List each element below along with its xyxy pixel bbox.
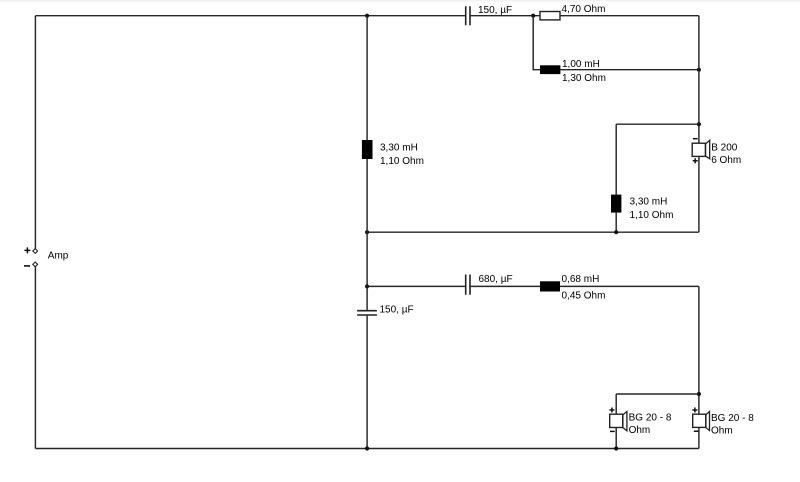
inductor 1.00mH body bbox=[540, 65, 560, 74]
svg-text:1,10 Ohm: 1,10 Ohm bbox=[630, 210, 674, 221]
svg-text:4,70 Ohm: 4,70 Ohm bbox=[562, 4, 606, 15]
wire: left BG20 to bottom rail bbox=[615, 428, 617, 449]
inductor 3.30mH (x616) body bbox=[611, 195, 621, 213]
speaker BG20-right box bbox=[693, 414, 706, 427]
wire: mid vertical rail top (x367) bbox=[366, 16, 368, 140]
wire: speaker branch y394 horizontal bbox=[616, 393, 699, 395]
node junction mid rail x616 bbox=[614, 230, 618, 234]
wire: x616 inductor to mid rail bbox=[615, 213, 617, 233]
wire: RL-left vertical stub bbox=[533, 16, 540, 70]
wire: left rail top (amp+) bbox=[34, 16, 36, 249]
svg-text:150, µF: 150, µF bbox=[380, 305, 414, 316]
node junction right rail y394 bbox=[697, 392, 701, 396]
svg-text:1,30 Ohm: 1,30 Ohm bbox=[562, 73, 606, 84]
capacitor 150µF top plates bbox=[466, 6, 470, 25]
wire: branch y124 horizontal bbox=[616, 123, 699, 125]
node junction right rail y124 bbox=[697, 122, 701, 126]
wire: x616 down to inductor bbox=[615, 124, 617, 194]
speaker BG20-right plus mark bbox=[692, 408, 697, 413]
speaker B200 minus mark bbox=[693, 138, 698, 140]
amp plus mark bbox=[24, 247, 30, 253]
wire: top rail left (amp+ to cap) bbox=[35, 15, 465, 17]
top window edge shading bbox=[0, 0, 800, 1]
svg-text:B 200: B 200 bbox=[711, 143, 738, 154]
wire: right BG20 to bottom rail end bbox=[698, 427, 700, 448]
node junction lower branch (x367) bbox=[365, 284, 369, 288]
node junction mid rail x367 bbox=[365, 230, 369, 234]
wire: top rail cap to node bbox=[470, 15, 540, 17]
inductor 3.30mH (x367) body bbox=[362, 140, 373, 159]
svg-text:0,45 Ohm: 0,45 Ohm bbox=[562, 290, 606, 301]
wire: x616 down to left BG20 bbox=[615, 394, 617, 414]
amp minus terminal diamond bbox=[33, 262, 38, 267]
svg-text:3,30 mH: 3,30 mH bbox=[380, 143, 418, 154]
wire: lower branch inductor to right rail bbox=[560, 285, 699, 287]
speaker BG20-right minus mark bbox=[694, 430, 699, 432]
wire: lower branch to cap bbox=[367, 285, 465, 287]
wire: left rail bottom (amp-) bbox=[34, 267, 36, 449]
speaker BG20-left horn bbox=[623, 412, 627, 431]
svg-text:3,30 mH: 3,30 mH bbox=[630, 197, 668, 208]
svg-text:1,10 Ohm: 1,10 Ohm bbox=[380, 156, 424, 167]
capacitor 680µF plates bbox=[466, 275, 470, 295]
svg-text:0,68 mH: 0,68 mH bbox=[562, 274, 600, 285]
svg-text:150, µF: 150, µF bbox=[478, 5, 512, 16]
wire: top rail resistor to right corner bbox=[560, 15, 699, 17]
speaker BG20-left minus mark bbox=[610, 430, 615, 432]
node junction RL-left (x533) bbox=[531, 14, 535, 18]
wire: right rail top segment bbox=[698, 16, 700, 144]
capacitor 150µF vertical plates bbox=[357, 311, 377, 315]
svg-text:Ohm: Ohm bbox=[629, 425, 651, 436]
wire: inductor to right rail bbox=[560, 69, 699, 71]
svg-text:6 Ohm: 6 Ohm bbox=[711, 155, 741, 166]
svg-text:680, µF: 680, µF bbox=[479, 274, 513, 285]
speaker B200 plus mark bbox=[693, 158, 698, 163]
speaker BG20-left plus mark bbox=[609, 408, 614, 413]
wire: mid horizontal rail y232 bbox=[367, 231, 699, 233]
svg-text:1,00 mH: 1,00 mH bbox=[562, 59, 600, 70]
inductor 0.68mH body bbox=[540, 281, 560, 291]
node junction top-mid (x367) bbox=[365, 14, 369, 18]
svg-text:BG 20 - 8: BG 20 - 8 bbox=[629, 413, 672, 424]
svg-text:Amp: Amp bbox=[48, 251, 69, 262]
amp plus terminal diamond bbox=[33, 249, 38, 254]
svg-text:Ohm: Ohm bbox=[711, 425, 733, 436]
speaker B200 horn bbox=[706, 140, 710, 159]
node junction bottom rail x616 bbox=[614, 446, 618, 450]
speaker BG20-left box bbox=[610, 414, 623, 427]
speaker BG20-right horn bbox=[706, 412, 710, 431]
speaker B200 box bbox=[692, 143, 705, 156]
svg-text:BG 20 - 8: BG 20 - 8 bbox=[711, 413, 754, 424]
wire: mid vertical rail between inductor and cap bbox=[366, 159, 368, 310]
node junction bottom rail x367 bbox=[365, 446, 369, 450]
node junction RL-right bbox=[697, 68, 701, 72]
wire: right rail speaker to mid corner bbox=[698, 156, 700, 232]
wire: lower branch cap to inductor bbox=[470, 285, 540, 287]
wire: right rail lower segment bbox=[698, 286, 700, 414]
amp minus mark bbox=[24, 265, 30, 267]
wire: bottom rail bbox=[35, 448, 699, 450]
resistor 4.70 Ohm bbox=[540, 12, 560, 20]
wire: mid vertical rail bottom bbox=[366, 316, 368, 449]
